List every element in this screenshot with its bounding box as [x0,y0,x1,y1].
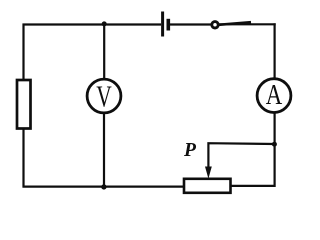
voltmeter V meter circle [87,79,121,113]
ammeter A meter circle [257,79,291,113]
svg-text:A: A [266,80,283,111]
wire top segment switch to right corner [218,23,276,25]
resistor R (left) [17,80,31,129]
wire left vertical lower [22,129,24,188]
battery cell long plate [161,12,164,37]
wire top segment from left corner to battery [23,23,162,25]
battery cell short plate [167,19,171,31]
switch S blade [219,22,252,25]
svg-text:V: V [96,78,112,113]
junction node wiper to right wire [272,142,277,147]
wire voltmeter branch lower [103,113,105,187]
rheostat wiper wire vertical and horizontal to junction [208,143,274,170]
wire right vertical lower [231,112,275,185]
wire bottom from left corner to rheostat [23,186,185,188]
rheostat wiper arrowhead [205,167,212,179]
svg-text:P: P [183,140,197,161]
wire voltmeter branch upper [103,24,105,80]
rheostat P track rectangle [184,179,231,193]
wire top segment battery to switch [170,23,212,25]
wire right vertical upper [274,23,276,80]
switch S pivot circle [212,22,218,28]
junction node on top wire [102,21,107,26]
wire left vertical upper [22,24,24,82]
junction node on bottom wire [101,184,106,189]
